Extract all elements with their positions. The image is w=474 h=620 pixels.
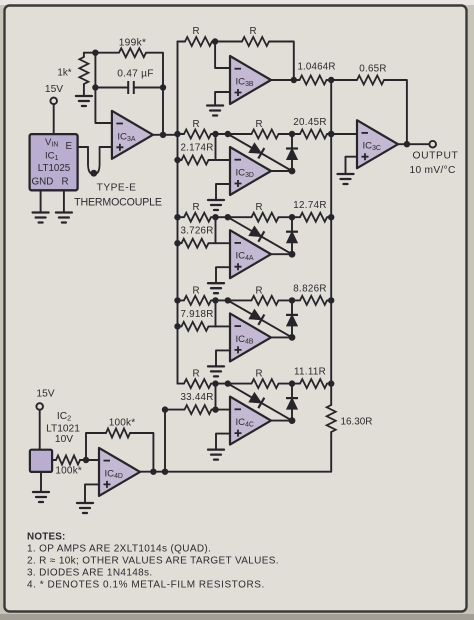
svg-text:E: E [66, 141, 73, 152]
wire IC3B output [271, 79, 300, 81]
wire IC3B + input to ground [215, 92, 230, 106]
diode D (vertical, IC4B) [286, 315, 298, 326]
node IC3C output / feedback [404, 141, 410, 147]
node IC4D summing junction [83, 457, 89, 463]
wire IC2 out to 100k [52, 459, 56, 461]
node IC3D summing junction [212, 131, 218, 137]
wire IC3D summing vertical [215, 134, 217, 160]
node IC3D output [289, 168, 296, 175]
op-amp U IC3C [357, 120, 398, 168]
svg-text:100k*: 100k* [55, 466, 82, 477]
diode D (vertical, IC3D) [286, 149, 298, 160]
node 33.44R corner (from IC4D) [162, 406, 168, 412]
node left bus at 2.174R [174, 157, 180, 163]
IC chip U IC1 LT1025 cold-junction compensator [30, 134, 78, 190]
wire IC4B top between dots [216, 299, 252, 301]
wire IC1 E pin to thermocouple [78, 146, 88, 148]
svg-text:100k*: 100k* [109, 418, 136, 429]
wire IC4A output [271, 253, 292, 255]
power terminal 15V (bottom left) [36, 388, 54, 410]
wire second R to node B (IC4B) [279, 299, 301, 301]
wire 33.44R riser [164, 410, 166, 472]
node cap left junction [92, 84, 98, 90]
resistor 33.44R (IC4C input) [180, 392, 213, 414]
svg-text:12.74R: 12.74R [293, 200, 326, 211]
svg-text:IC2: IC2 [57, 411, 71, 423]
node IC4A output [289, 251, 296, 258]
svg-text:3. DIODES ARE 1N4148s.: 3. DIODES ARE 1N4148s. [27, 568, 153, 579]
resistor R (IC3B feedback) [242, 26, 269, 46]
node IC4B summing junction [212, 297, 218, 303]
op-amp U IC3B [230, 56, 271, 104]
wire 12.74R to summing bus [327, 216, 331, 218]
svg-text:10 mV/°C: 10 mV/°C [410, 165, 456, 176]
svg-text:3.726R: 3.726R [180, 226, 213, 237]
node IC4B diode takeoff [225, 297, 231, 303]
wire IC3D output [271, 170, 292, 172]
op-amp U IC4C [230, 397, 271, 445]
ground (IC4A + input) [208, 283, 224, 293]
svg-text:4. * DENOTES 0.1% METAL-FILM: 4. * DENOTES 0.1% METAL-FILM RESISTORS. [27, 580, 265, 591]
op-amp U IC4A [230, 230, 271, 278]
node IC3A output [160, 132, 166, 138]
resistor R (IC3B input) [185, 26, 212, 46]
node IC4B B (feedback/output tap) [289, 297, 295, 303]
wire vertical diode branch (IC4A) [291, 217, 293, 254]
wire IC4C top between dots [216, 383, 252, 385]
ground (1k resistor) [76, 96, 92, 106]
wire IC4D + input to ground [85, 484, 99, 503]
svg-text:8.826R: 8.826R [293, 283, 326, 294]
wire IC3D top between dots [216, 133, 252, 135]
resistor 1k* (gain set) [57, 53, 88, 96]
power terminal 15V (top left) [45, 84, 63, 104]
wire summing bus to IC3C - input [331, 133, 357, 135]
node summing bus at IC4B [328, 297, 334, 303]
svg-text:R: R [192, 119, 199, 130]
wire second R to node B (IC3D) [279, 133, 301, 135]
wire diagonal diode branch (IC4B) [228, 300, 292, 337]
node left bus at 7.918R [174, 323, 180, 329]
resistor 3.726R (IC4A input) [180, 226, 213, 248]
svg-text:15V: 15V [45, 84, 63, 95]
wire 16.30R to bottom line [140, 432, 331, 472]
wire diagonal diode branch (IC3D) [228, 134, 292, 171]
wire to IC4C summing node [211, 383, 216, 385]
wire 11.11R to summing bus [327, 383, 331, 385]
resistor R (IC4A feedback 2) [252, 202, 279, 222]
svg-text:R: R [192, 285, 199, 296]
wire IC3B feedback to output [269, 42, 294, 81]
wire vertical diode branch (IC3D) [291, 134, 293, 171]
wire 199k to right corner [146, 53, 163, 135]
resistor 1.0464R [297, 62, 335, 85]
svg-text:R: R [192, 26, 199, 37]
wire bus to first R (IC3D) [178, 133, 185, 135]
resistor R (IC4A feedback 1) [184, 202, 211, 222]
svg-text:LT1021: LT1021 [46, 424, 80, 435]
resistor 16.30R [327, 405, 373, 432]
wire feedback top run [84, 52, 119, 54]
svg-text:2.174R: 2.174R [180, 143, 213, 154]
svg-text:33.44R: 33.44R [180, 392, 213, 403]
wire thermocouple to IC3A + input [100, 146, 112, 148]
node summing bus at IC4C (16.30R tap) [328, 380, 334, 386]
wire IC3C + input to ground [346, 157, 358, 174]
svg-text:R: R [249, 26, 256, 37]
wire 1.0464R to summing bus [327, 79, 332, 81]
wire IC4B summing vertical [215, 300, 217, 326]
node IC4D output to 33.44R riser [162, 469, 168, 475]
ground (IC4B + input) [208, 366, 224, 376]
node IC4A diode takeoff [225, 214, 231, 220]
op-amp U IC4B [230, 313, 271, 361]
svg-text:R: R [192, 202, 199, 213]
svg-text:R: R [255, 369, 262, 380]
wire IC4A summing vertical [215, 217, 217, 243]
resistor R (IC3D feedback 1) [184, 119, 211, 139]
label IC2 LT1021 10V [46, 411, 80, 445]
svg-text:LT1025: LT1025 [38, 163, 71, 174]
svg-text:16.30R: 16.30R [341, 417, 373, 428]
wire to IC3D summing node [211, 133, 216, 135]
resistor R (IC4B feedback 1) [184, 285, 211, 305]
wire bus to first R (IC4B) [178, 299, 185, 301]
node IC4C B (feedback/output tap) [289, 380, 295, 386]
diode D (diagonal, IC4B) [249, 309, 265, 325]
node IC4C summing at - input [212, 406, 218, 412]
thermocouple junction (type-E) [88, 147, 100, 177]
wire second R to node B (IC4C) [279, 383, 301, 385]
capacitor C1 0.47uF (across 199k) [95, 69, 163, 95]
op-amp U IC3D [230, 147, 271, 195]
wire feedback to IC4D output [130, 433, 153, 472]
resistor 20.45R (IC3D output) [293, 117, 327, 139]
svg-text:R: R [255, 285, 262, 296]
wire bus to 3.726R [178, 242, 182, 244]
resistor R (IC4B feedback 2) [252, 285, 279, 305]
ground (IC3D + input) [208, 200, 224, 210]
ground (IC1 R pin) [56, 213, 72, 223]
svg-text:20.45R: 20.45R [293, 117, 326, 128]
svg-text:0.65R: 0.65R [359, 64, 386, 75]
label OUTPUT 10 mV/degC [410, 151, 459, 177]
wire IC3A output to bus [153, 134, 178, 136]
diode D (diagonal, IC4C) [249, 392, 265, 408]
node summing bus top [328, 77, 334, 83]
op-amp U IC3A [112, 111, 153, 159]
wire IC4D feedback up [86, 433, 106, 460]
node summing bus at IC3C input [328, 131, 334, 137]
wire 8.826R to summing bus [327, 299, 331, 301]
diode D (vertical, IC4A) [286, 232, 298, 243]
wire to IC4B summing node [211, 299, 216, 301]
output terminal [429, 141, 436, 148]
wire 15V to IC1 VIN [53, 104, 55, 134]
resistor R (IC3D feedback 2) [252, 119, 279, 139]
wire second R to node B (IC4A) [279, 216, 301, 218]
svg-text:11.11R: 11.11R [294, 367, 326, 378]
node left bus at IC3D top R [174, 131, 180, 137]
wire IC3A inverting input [95, 53, 112, 123]
node IC4A B (feedback/output tap) [289, 214, 295, 220]
wire IC4C output [271, 420, 292, 422]
wire IC4B + input to ground [216, 350, 230, 366]
node cap right junction [160, 84, 166, 90]
svg-text:NOTES:: NOTES: [27, 532, 66, 543]
wire IC4B output [271, 336, 292, 338]
wire 33.44R to - input (IC4C) [212, 409, 231, 411]
node left bus at IC4A top R [174, 214, 180, 220]
wire corner to 33.44R [165, 409, 185, 411]
node IC3D diode takeoff [225, 131, 231, 137]
node IC4C summing junction [212, 380, 218, 386]
wire IC4C + input to ground [216, 434, 230, 450]
wire bus to first R (IC4A) [178, 216, 185, 218]
resistor 2.174R (IC3D input) [180, 143, 213, 165]
wire 7.918R to - input (IC4B) [209, 325, 231, 327]
node IC4C diode takeoff [225, 380, 231, 386]
ground (IC2) [33, 492, 49, 502]
svg-text:R: R [62, 177, 69, 188]
wire to IC3B summing node [212, 41, 215, 43]
node IC3B summing junction [212, 38, 218, 44]
ground (IC3C + input) [338, 174, 354, 184]
wire bus to 7.918R [178, 325, 182, 327]
node IC3B output [291, 77, 297, 83]
diode D (vertical, IC4C) [286, 398, 298, 409]
resistor 8.826R (IC4B output) [293, 283, 327, 305]
wire IC4C summing vertical [215, 384, 217, 410]
wire bus corner to first R (IC4C) [178, 383, 185, 385]
diode D (diagonal, IC4A) [249, 226, 265, 242]
svg-text:2. R ≈ 10k; OTHER VALUES ARE T: 2. R ≈ 10k; OTHER VALUES ARE TARGET VALU… [27, 556, 279, 567]
wire diagonal diode branch (IC4A) [228, 217, 292, 254]
wire left bus (IC3A output distribution) [177, 42, 179, 384]
node IC4B output [289, 334, 296, 341]
wire IC4A + input to ground [216, 267, 230, 283]
wire IC1 GND pin down [40, 190, 42, 212]
wire 0.65R to IC3C output [384, 80, 407, 144]
wire 3.726R to - input (IC4A) [209, 242, 231, 244]
resistor R (IC4C feedback 1) [184, 369, 211, 389]
wire 2.174R to - input (IC3D) [209, 159, 231, 161]
ground (IC3B + input) [207, 106, 223, 116]
svg-text:1. OP AMPS ARE 2XLT1014s (QUAD: 1. OP AMPS ARE 2XLT1014s (QUAD). [27, 544, 211, 555]
node left bus at 3.726R [174, 240, 180, 246]
svg-text:R: R [192, 369, 199, 380]
ground (IC4D + input) [77, 503, 93, 513]
wire IC3B summing to second R [215, 41, 242, 43]
wire 20.45R to summing bus [327, 133, 331, 135]
svg-text:R: R [255, 119, 262, 130]
wire vertical diode branch (IC4C) [291, 384, 293, 421]
wire 15V to IC2 [39, 410, 41, 450]
node summing bus at IC4A [328, 214, 334, 220]
diode D (diagonal, IC3D) [249, 143, 265, 159]
wire IC2 to ground [40, 472, 42, 492]
wire bus to 16.30R [330, 384, 332, 405]
op-amp U IC4D [99, 448, 140, 496]
node IC3D B (feedback/output tap) [289, 131, 295, 137]
resistor R (IC4C feedback 2) [252, 369, 279, 389]
notes text block [27, 532, 279, 591]
svg-text:THERMOCOUPLE: THERMOCOUPLE [74, 197, 162, 209]
resistor 11.11R (IC4C output) [294, 367, 327, 389]
node IC4A summing junction [212, 214, 218, 220]
svg-text:1k*: 1k* [57, 68, 71, 79]
node summing bus at IC3D [328, 131, 334, 137]
svg-text:15V: 15V [36, 388, 54, 399]
svg-text:R: R [255, 202, 262, 213]
resistor 100k* (IC4D input) [55, 456, 82, 477]
svg-text:7.918R: 7.918R [180, 309, 213, 320]
svg-text:1.0464R: 1.0464R [297, 62, 335, 73]
wire bus to 2.174R [178, 159, 182, 161]
resistor 100k* (IC4D feedback) [106, 418, 135, 438]
svg-text:10V: 10V [55, 434, 73, 445]
wire IC3B inverting input [215, 42, 230, 69]
label TYPE-E THERMOCOUPLE [74, 183, 162, 209]
wire diagonal diode branch (IC4C) [228, 384, 292, 421]
resistor 7.918R (IC4B input) [180, 309, 213, 331]
wire bus to 0.65R [331, 79, 357, 81]
resistor 0.65R (IC3C feedback) [357, 64, 387, 85]
svg-text:199k*: 199k* [119, 38, 147, 49]
wire IC3C output to terminal [398, 143, 430, 145]
svg-text:TYPE-E: TYPE-E [97, 183, 137, 194]
wire vertical diode branch (IC4B) [291, 300, 293, 337]
resistor 12.74R (IC4A output) [293, 200, 327, 222]
node IC4D output feedback junction [150, 469, 156, 475]
ground (IC1 GND pin) [33, 213, 49, 223]
node left bus at IC4B top R [174, 297, 180, 303]
node IC3A summing junction (top) [92, 50, 98, 56]
ground (IC4C + input) [208, 450, 224, 460]
wire bus to first R (IC3B) [178, 41, 186, 43]
IC chip U IC2 LT1021 reference [30, 450, 52, 472]
svg-text:0.47 µF: 0.47 µF [117, 69, 154, 80]
svg-text:OUTPUT: OUTPUT [413, 151, 459, 162]
resistor 199k* (IC3A feedback) [119, 38, 147, 58]
svg-text:GND: GND [32, 177, 54, 188]
wire IC3D + input to ground [216, 184, 230, 200]
wire IC1 R pin down [63, 190, 65, 212]
wire right summing bus [330, 80, 332, 384]
wire IC4A top between dots [216, 216, 252, 218]
wire 100k to IC4D - input [80, 459, 99, 461]
wire to IC4A summing node [211, 216, 216, 218]
node IC4C output [289, 417, 296, 424]
